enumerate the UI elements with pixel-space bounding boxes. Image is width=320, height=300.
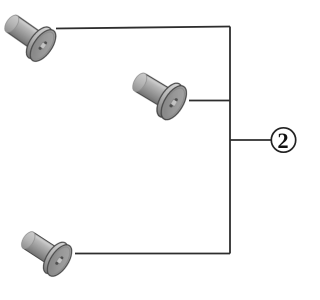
callout connector bbox=[230, 139, 271, 141]
screw 1 (top-left barrel nut) bbox=[0, 6, 61, 66]
leader line bottom bbox=[75, 253, 230, 255]
screw 2 (middle barrel nut) bbox=[125, 63, 191, 124]
screw 3 (bottom barrel nut) bbox=[14, 222, 76, 280]
leader line top bbox=[56, 27, 230, 29]
bracket vertical line bbox=[229, 27, 231, 254]
callout circle bbox=[271, 128, 295, 152]
leader line middle bbox=[189, 100, 230, 102]
svg-text:2: 2 bbox=[277, 128, 288, 153]
